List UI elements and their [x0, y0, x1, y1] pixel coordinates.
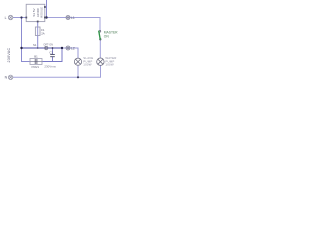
svg-text:L1: L1 — [71, 16, 75, 20]
svg-text:S1: S1 — [33, 43, 37, 47]
svg-text:MODULE: MODULE — [40, 7, 44, 18]
svg-text:C1: C1 — [49, 50, 53, 54]
svg-text:230Vrms: 230Vrms — [44, 65, 56, 69]
svg-text:100W: 100W — [105, 62, 113, 66]
svg-text:2A: 2A — [41, 31, 45, 35]
svg-text:L2: L2 — [71, 47, 75, 51]
svg-text:AC/DC: AC/DC — [36, 7, 40, 17]
svg-text:230VAC: 230VAC — [7, 47, 11, 62]
svg-text:PRES: PRES — [32, 65, 40, 69]
svg-text:L: L — [5, 16, 7, 20]
svg-text:100W: 100W — [83, 62, 91, 66]
svg-text:ON: ON — [104, 34, 110, 38]
svg-text:OPT-ON: OPT-ON — [43, 44, 53, 47]
svg-text:B1: B1 — [34, 54, 38, 58]
